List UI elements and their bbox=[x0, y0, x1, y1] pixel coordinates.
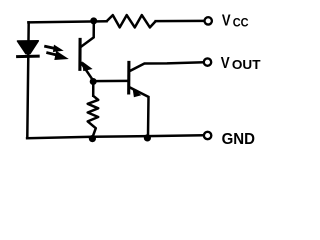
wire: bottom GND rail bbox=[27, 135, 203, 138]
transistor Q1 emitter with arrowhead bbox=[82, 63, 94, 81]
light arrow 1 (LED light to Q1) bbox=[46, 46, 56, 48]
wire: left rail vertical bbox=[27, 22, 28, 137]
terminal GND (open circle) bbox=[204, 132, 211, 139]
node: junction dot on top rail bbox=[90, 17, 97, 24]
transistor Q1 collector bbox=[82, 22, 94, 47]
transistor Q1 (phototransistor) base bar bbox=[78, 39, 81, 69]
transistor Q2 (output NPN) base bar bbox=[127, 62, 130, 93]
label GND bbox=[222, 131, 255, 148]
wire: node A to Q2 base bbox=[93, 80, 127, 83]
svg-text:V: V bbox=[221, 55, 230, 72]
terminal Vout (open circle) bbox=[204, 58, 211, 65]
svg-text:CC: CC bbox=[233, 16, 249, 30]
wire: resistor R1 to Vcc terminal bbox=[156, 20, 204, 23]
terminal Vcc (open circle) bbox=[205, 17, 212, 24]
svg-text:V: V bbox=[222, 13, 231, 30]
LED D1 filled triangle (cathode down) bbox=[18, 41, 39, 54]
light arrow 2 (LED light to Q1) bbox=[48, 53, 58, 56]
node B (Q2 emitter on GND rail) bbox=[144, 134, 151, 141]
wire: top rail bbox=[28, 21, 106, 22]
transistor Q2 collector to Vout line bbox=[130, 62, 203, 71]
svg-text:GND: GND bbox=[222, 131, 255, 148]
LED D1 cathode bar bbox=[18, 55, 39, 59]
label Vcc bbox=[222, 13, 249, 30]
label Vout bbox=[221, 55, 261, 72]
wire: node A down to resistor R2 bbox=[92, 81, 95, 96]
resistor R2 (vertical zigzag) bbox=[88, 96, 99, 136]
svg-text:OUT: OUT bbox=[232, 58, 261, 72]
node A (Q1 emitter / R2 / Q2 base junction) bbox=[90, 78, 97, 85]
transistor Q2 emitter with arrowhead, down to GND rail bbox=[130, 87, 149, 136]
node: junction dot R2 bottom on GND rail bbox=[89, 135, 96, 142]
resistor R1 (horizontal zigzag) bbox=[107, 15, 156, 27]
